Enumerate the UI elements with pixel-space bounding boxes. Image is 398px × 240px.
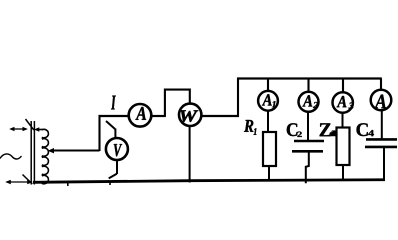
- bottom terminal double arrow: [5, 180, 33, 184]
- wattmeter current-coil loop: [165, 90, 190, 116]
- capacitor C4 bottom plate: [365, 146, 397, 149]
- branch3 lead to rail: [342, 165, 344, 181]
- bottom rail: [33, 180, 385, 183]
- branch1 lead to rail: [268, 166, 270, 182]
- winding top lead with arrowhead to core: [34, 127, 43, 131]
- resistor R1 box: [263, 132, 276, 166]
- label C4: [357, 123, 368, 136]
- label C2: [287, 123, 298, 136]
- top bus: [237, 77, 382, 79]
- branch4 drop: [380, 79, 382, 91]
- wire ammeter to wattmeter loop: [151, 115, 166, 117]
- winding coil: [42, 129, 49, 137]
- branch2 lead to capacitor: [307, 112, 309, 141]
- wire left vertical: [98, 115, 100, 151]
- branch2 lead to rail: [306, 151, 309, 183]
- voltmeter bottom lead vertical: [116, 160, 118, 174]
- wattmeter W: [179, 104, 201, 126]
- voltmeter bottom diagonal lead: [109, 174, 117, 179]
- voltmeter top lead vertical: [114, 129, 116, 139]
- capacitor C4 top plate: [366, 138, 397, 141]
- branch3 lead to load box: [342, 113, 344, 128]
- ammeter A4: [371, 90, 392, 111]
- ammeter A1: [258, 91, 278, 111]
- branch4 lead to rail: [383, 147, 385, 181]
- core top slash: [26, 119, 34, 130]
- rail junction stub 1: [67, 183, 69, 187]
- branch1 lead to resistor: [267, 111, 269, 133]
- branch2 drop: [307, 79, 309, 93]
- branch1 drop: [267, 79, 269, 92]
- wire wattmeter to riser: [201, 115, 239, 117]
- rail junction stub 2: [109, 181, 111, 186]
- capacitor C2 bottom plate: [292, 150, 323, 153]
- load impedance Zn box: [337, 128, 350, 166]
- AC source ~: [0, 154, 22, 159]
- ammeter A3: [333, 92, 353, 112]
- label I: [111, 96, 116, 110]
- transformer core line left: [30, 121, 32, 185]
- core bottom slash: [23, 175, 33, 185]
- branch4 lead to capacitor: [381, 110, 383, 139]
- voltmeter V: [106, 138, 128, 160]
- top terminal double arrow: [9, 127, 28, 131]
- ammeter A: [129, 104, 152, 127]
- riser to top bus: [237, 78, 239, 118]
- wattmeter voltage lead down: [189, 126, 191, 183]
- wire top horizontal to ammeter: [99, 115, 130, 117]
- ammeter A2: [299, 92, 319, 112]
- tap wire with arrowhead into winding: [48, 148, 100, 153]
- voltmeter top diagonal lead: [106, 121, 115, 129]
- capacitor C2 top plate: [294, 140, 324, 143]
- transformer core line right: [33, 121, 35, 185]
- label Zn: [320, 123, 331, 136]
- label R1: [244, 120, 253, 132]
- branch3 drop: [342, 79, 344, 93]
